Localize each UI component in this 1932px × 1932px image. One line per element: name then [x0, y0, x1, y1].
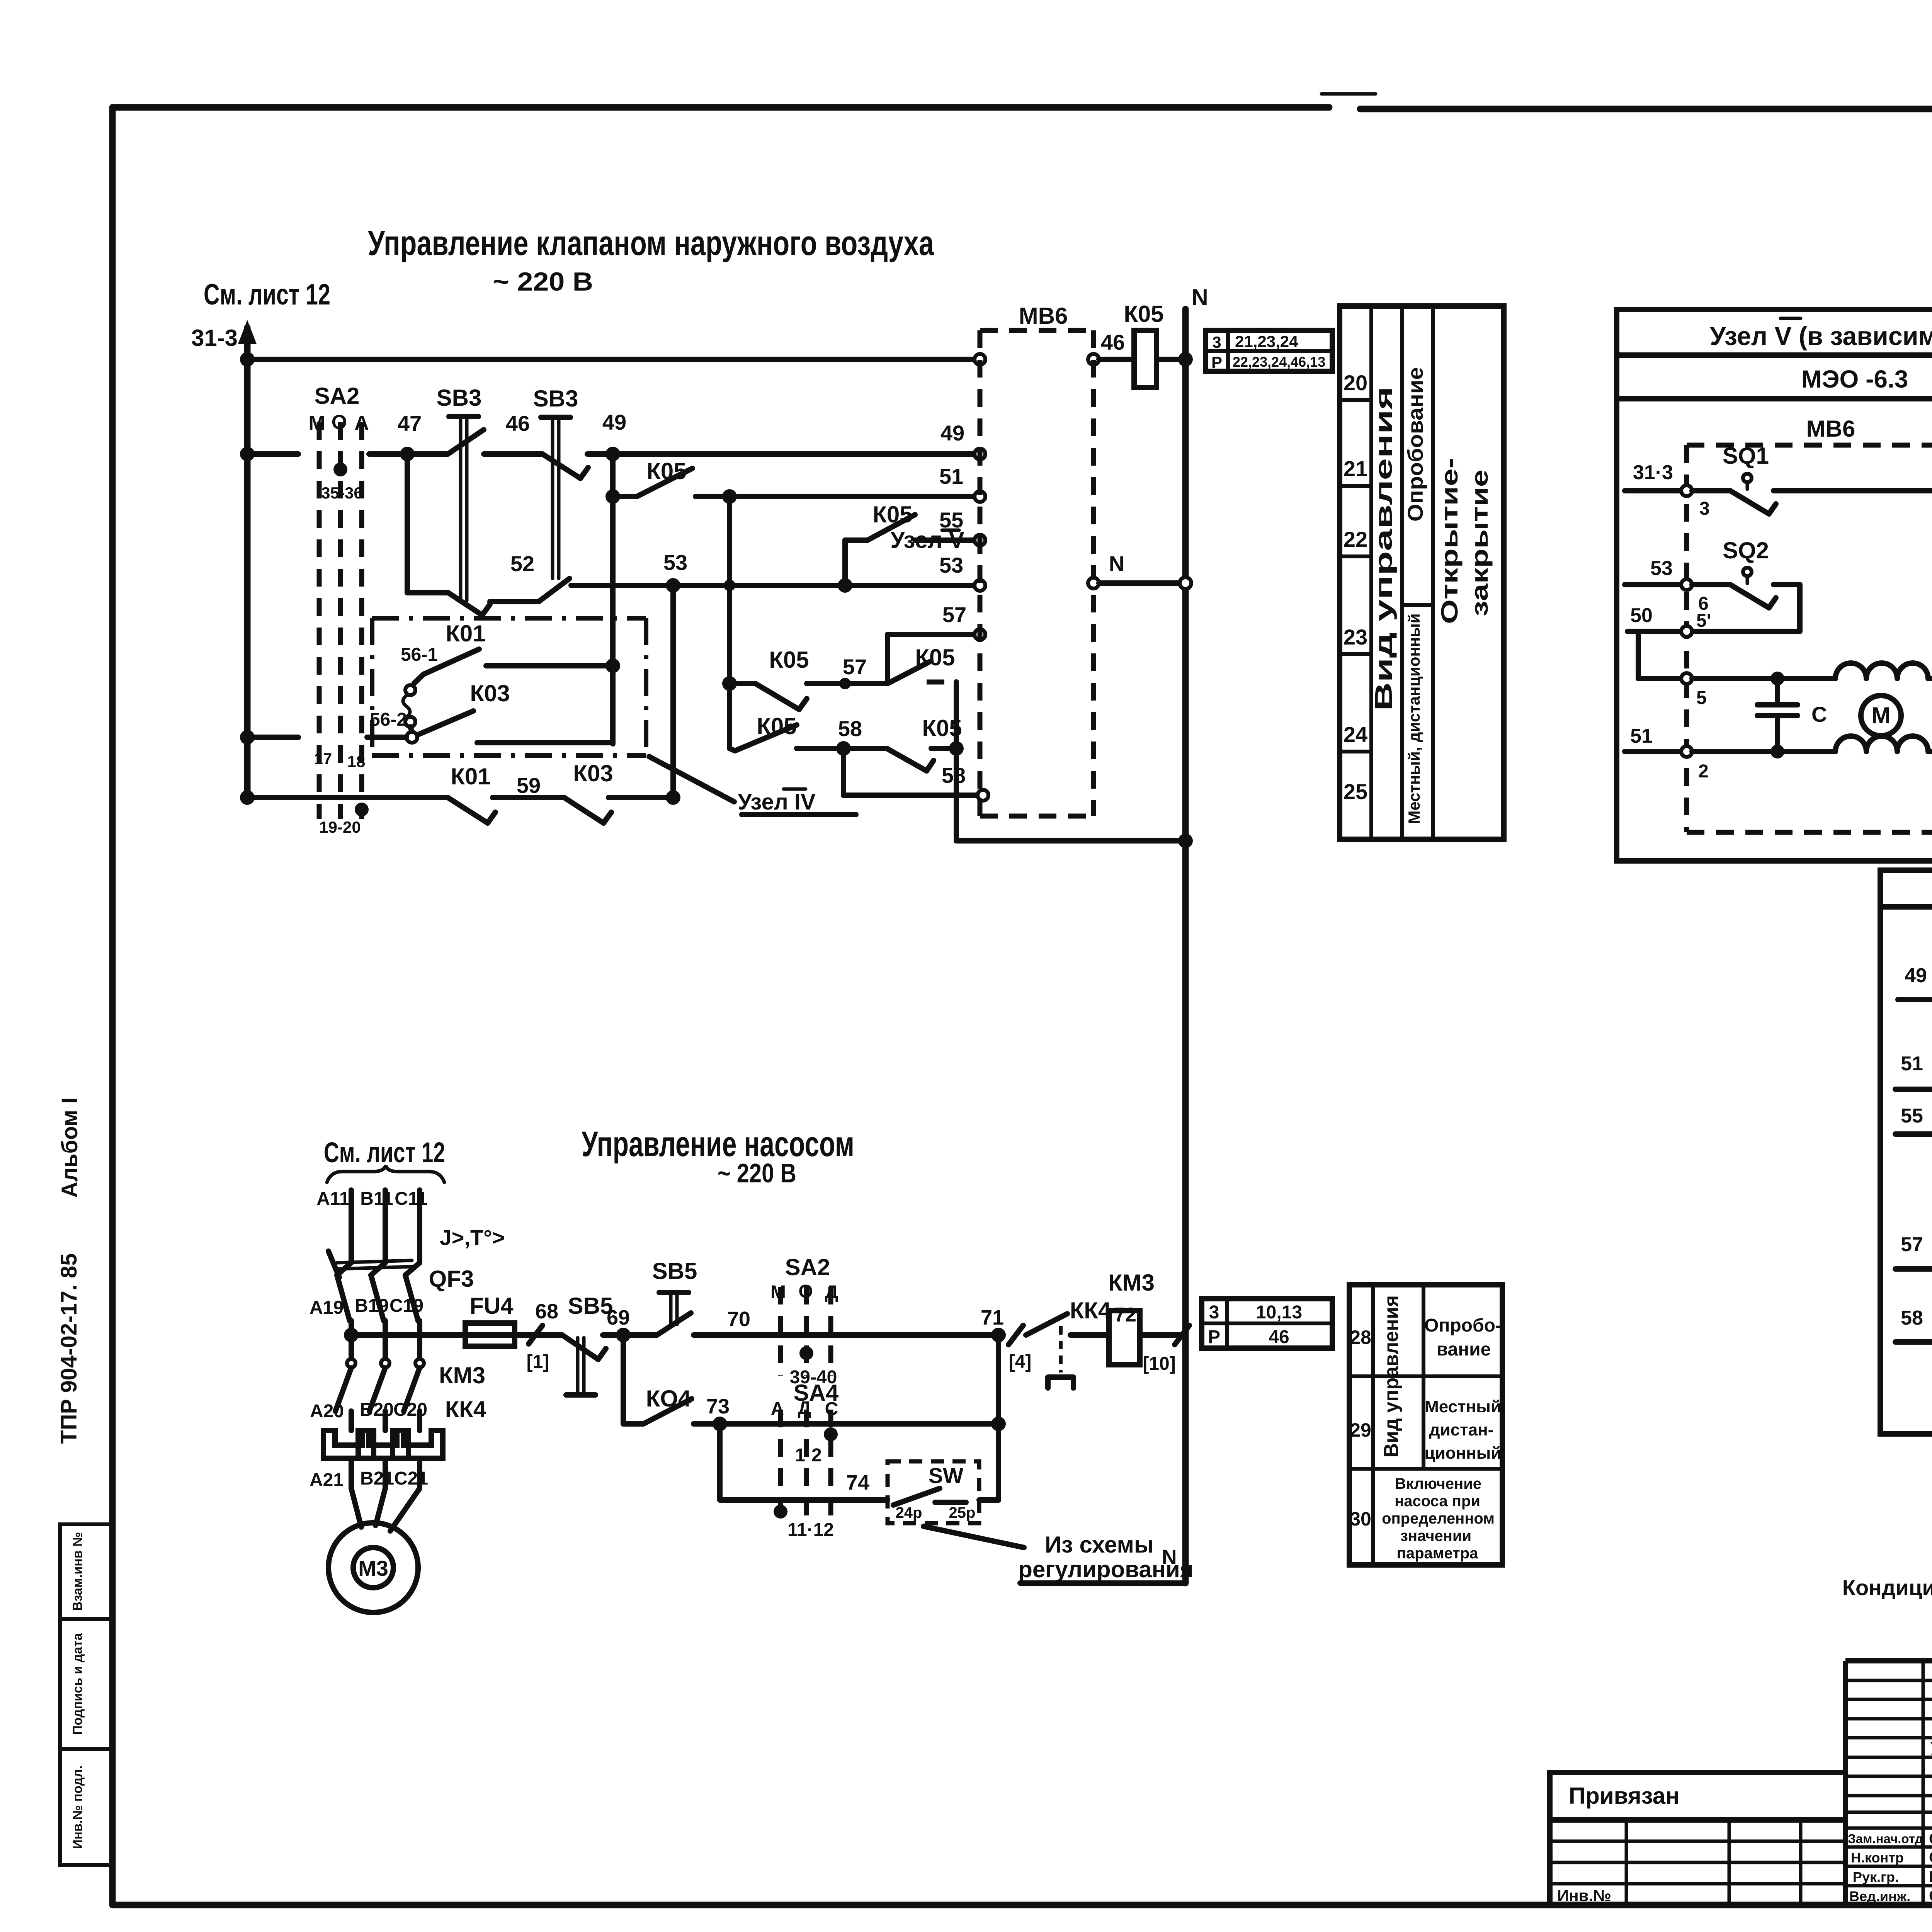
stop button SB5 — [562, 1293, 613, 1395]
svg-text:[1]: [1] — [527, 1352, 549, 1372]
svg-text:21,23,24: 21,23,24 — [1235, 332, 1298, 350]
junction on N bus — [1178, 833, 1193, 848]
wire 74 — [720, 1471, 888, 1500]
svg-text:2: 2 — [1698, 761, 1709, 782]
wire row A (top) to MV6 — [247, 357, 975, 362]
wire 46 to K05 coil — [1099, 357, 1134, 362]
svg-text:КМ3: КМ3 — [1108, 1270, 1155, 1296]
svg-text:Вед.инж.: Вед.инж. — [1849, 1888, 1910, 1904]
svg-text:22,23,24,46,13: 22,23,24,46,13 — [1233, 354, 1325, 370]
junction row E with K05 riser — [724, 580, 735, 591]
svg-text:КО4: КО4 — [646, 1386, 691, 1412]
svg-text:ТПР 904-02-17. 85: ТПР 904-02-17. 85 — [56, 1253, 82, 1444]
title block outer — [1845, 1661, 1932, 1905]
svg-text:47: 47 — [398, 411, 422, 435]
svg-text:А21: А21 — [310, 1470, 344, 1490]
fuse FU4 — [465, 1293, 515, 1346]
uzel IV label — [738, 789, 856, 815]
motor winding top (MEO-6.3) — [1835, 663, 1928, 679]
Uzel V label (inside) — [890, 527, 964, 553]
vertical junction 53 down to bottom row — [670, 585, 676, 798]
junction row E right — [838, 578, 852, 593]
svg-text:КК4: КК4 — [1070, 1298, 1111, 1323]
switch SA4 dashed — [771, 1380, 839, 1540]
svg-text:68: 68 — [535, 1300, 558, 1323]
inventory grid lower left — [1550, 1820, 1845, 1905]
capacitor C (MEO-6.3) — [1757, 679, 1827, 752]
svg-text:55: 55 — [1901, 1105, 1923, 1127]
riser to node 58 row — [954, 682, 959, 748]
svg-text:МВ6: МВ6 — [1019, 303, 1068, 329]
junction A-phase bottom — [355, 803, 369, 816]
svg-text:53: 53 — [663, 550, 687, 575]
labels 17 18 — [314, 750, 366, 770]
drop from node 58 to pin row — [841, 748, 846, 795]
privyazan box — [1550, 1772, 1845, 1820]
external jog 50 to pin 5 — [1638, 631, 1682, 679]
svg-text:Из схемы: Из схемы — [1045, 1532, 1154, 1558]
wire row B across SA2 to node 47 — [369, 451, 407, 457]
pin 3 circle — [1681, 485, 1710, 519]
svg-text:51: 51 — [1630, 725, 1653, 747]
contact K04 — [623, 1386, 692, 1424]
svg-text:определенном: определенном — [1382, 1510, 1495, 1527]
contact K03 at 56-2 — [370, 680, 510, 743]
svg-text:56-2: 56-2 — [370, 709, 407, 730]
wire K05 coil to N bus — [1156, 357, 1185, 362]
svg-text:46: 46 — [506, 411, 530, 435]
svg-text:3: 3 — [1212, 333, 1221, 351]
svg-text:С19: С19 — [389, 1296, 423, 1316]
svg-text:J>,Т°>: J>,Т°> — [440, 1225, 505, 1250]
svg-text:Вид управления: Вид управления — [1371, 386, 1397, 711]
svg-text:50: 50 — [1630, 604, 1653, 627]
svg-text:Гинодман: Гинодман — [1929, 1868, 1932, 1885]
row numbers 28-30 — [1350, 1327, 1371, 1530]
latch contact K01 with link 56-1 — [401, 621, 486, 674]
signature row ved inzh — [1849, 1888, 1932, 1905]
junction row F — [605, 658, 620, 673]
svg-text:В11: В11 — [360, 1189, 393, 1209]
wire 58 to pin — [844, 793, 978, 798]
svg-text:49: 49 — [1905, 964, 1927, 987]
svg-text:Узел V (в зависимости от типа: Узел V (в зависимости от типа исполнител… — [1710, 321, 1932, 351]
svg-text:См. лист 12: См. лист 12 — [324, 1136, 445, 1168]
left margin boxes — [60, 1524, 112, 1865]
contact K05 (58 row left) — [730, 713, 797, 751]
svg-text:А11: А11 — [316, 1189, 349, 1209]
svg-text:К01: К01 — [446, 621, 485, 646]
signature row zam nach otd — [1848, 1830, 1932, 1847]
node 50 stub — [1628, 604, 1682, 631]
uzel V variants outer box — [1617, 310, 1932, 861]
node 57 stub (DAU) — [1895, 1233, 1932, 1269]
svg-text:А20: А20 — [310, 1401, 344, 1422]
uzel IV dash-dot boundary — [372, 618, 646, 755]
svg-text:10,13: 10,13 — [1256, 1302, 1302, 1323]
wire pin5 to winding — [1692, 676, 1835, 681]
drop 73 to 74 line — [717, 1424, 723, 1500]
svg-text:30: 30 — [1350, 1508, 1371, 1530]
wire winding bottom to riser — [1928, 749, 1932, 754]
pin circle MV6 right, node 46 — [1088, 354, 1099, 365]
contact K05 (row D, 55) — [845, 502, 915, 540]
motor winding bottom — [1835, 736, 1928, 752]
svg-text:SA2: SA2 — [315, 383, 360, 409]
row numbers 20-25 — [1344, 371, 1367, 804]
svg-text:~ 220 В: ~ 220 В — [493, 267, 593, 296]
wire row G from bus — [247, 735, 298, 740]
wire to node 49 — [587, 451, 613, 457]
labels A19 B19 C19 — [310, 1296, 423, 1318]
node 69 — [607, 1306, 631, 1342]
svg-text:53: 53 — [1650, 557, 1673, 580]
pin circle MV6 left, row A — [975, 354, 985, 365]
svg-text:К05: К05 — [646, 458, 686, 484]
N return wire (pump) — [1020, 1546, 1185, 1583]
motor M3 — [328, 1523, 418, 1612]
svg-text:закрытие: закрытие — [1467, 469, 1493, 616]
wire to node 58 — [797, 746, 844, 751]
svg-text:59: 59 — [517, 773, 541, 798]
title block signature grid — [1845, 1661, 1932, 1905]
motor M circle (MEO-6.3) — [1861, 696, 1901, 736]
svg-text:Местный, дистанционный: Местный, дистанционный — [1405, 614, 1423, 824]
circuit breaker QF3 — [328, 1251, 474, 1321]
cell label vkluchenie nasosa — [1382, 1475, 1495, 1562]
svg-text:[10]: [10] — [1143, 1354, 1175, 1374]
svg-text:18: 18 — [347, 752, 366, 770]
svg-text:35-36: 35-36 — [321, 484, 362, 502]
svg-text:71: 71 — [981, 1306, 1004, 1329]
leader to regulation note — [923, 1526, 1024, 1548]
pin circle 57 — [975, 629, 985, 640]
note iz skhemy regulirovaniya — [1018, 1532, 1194, 1582]
svg-text:С21: С21 — [394, 1468, 428, 1489]
svg-text:24р: 24р — [896, 1504, 922, 1521]
svg-text:М: М — [1871, 702, 1891, 728]
junction riser — [949, 741, 964, 756]
svg-text:К05: К05 — [922, 715, 962, 741]
svg-text:А19: А19 — [310, 1298, 344, 1318]
pin circle 49 — [975, 449, 985, 459]
svg-text:57: 57 — [843, 655, 867, 679]
signature row ruk gr — [1853, 1868, 1932, 1885]
tick 71 and [4] — [1009, 1325, 1031, 1372]
svg-text:N: N — [1191, 284, 1208, 310]
svg-text:Привязан: Привязан — [1569, 1783, 1679, 1809]
open circle on bus at N — [1180, 577, 1191, 589]
svg-text:46: 46 — [1269, 1327, 1289, 1347]
svg-text:КК4: КК4 — [445, 1396, 486, 1422]
wire 57 row — [807, 681, 888, 686]
svg-text:58: 58 — [838, 716, 862, 741]
wire row C to pin 51 — [696, 494, 975, 499]
mechanical link circles 56 — [403, 674, 423, 732]
svg-text:FU4: FU4 — [469, 1293, 514, 1319]
svg-text:Включение: Включение — [1395, 1475, 1481, 1492]
svg-text:Вид управления: Вид управления — [1380, 1295, 1403, 1458]
svg-text:К05: К05 — [872, 502, 912, 527]
node 58 stub (DAU) — [1895, 1307, 1932, 1342]
junction K05 row — [722, 676, 737, 691]
svg-text:SB3: SB3 — [437, 385, 482, 411]
svg-text:А: А — [771, 1399, 784, 1419]
svg-text:Узел IV: Узел IV — [738, 789, 816, 815]
svg-text:Р: Р — [1211, 353, 1222, 371]
svg-text:25р: 25р — [949, 1504, 976, 1521]
function table rows 28-30 — [1349, 1285, 1502, 1565]
svg-text:31-3: 31-3 — [191, 325, 238, 351]
MEO-40 DAU outer box — [1880, 907, 1932, 1434]
wire fuse to SB5 — [515, 1332, 562, 1338]
node 53 stub (MEO-6.3) — [1625, 557, 1682, 585]
svg-text:С: С — [825, 1399, 838, 1419]
svg-text:53: 53 — [939, 553, 963, 577]
svg-text:~ 220 В: ~ 220 В — [718, 1158, 796, 1188]
SQ2 output jog to pin 5' — [1692, 585, 1800, 631]
svg-text:А: А — [354, 412, 369, 434]
N bus vertical — [1182, 309, 1189, 1583]
pin 6 circle — [1681, 579, 1709, 614]
svg-text:56-1: 56-1 — [401, 645, 438, 665]
push button SB3 (first) — [437, 385, 484, 601]
labels A20 B20 C20 — [310, 1400, 427, 1422]
wire pin3 to node 2' — [1774, 488, 1932, 493]
svg-text:К05: К05 — [1124, 301, 1163, 327]
svg-text:Инв.№: Инв.№ — [1557, 1886, 1611, 1905]
svg-text:49: 49 — [602, 410, 626, 434]
riser 71-73-74 — [996, 1335, 1001, 1500]
start button SB5 — [623, 1258, 697, 1335]
svg-text:19-20: 19-20 — [319, 818, 361, 836]
relay coil K05 — [1124, 301, 1163, 388]
svg-text:В19: В19 — [355, 1296, 389, 1316]
junction bottom right — [666, 790, 680, 805]
svg-text:SA2: SA2 — [785, 1254, 830, 1280]
contact K05 (57 row right) — [888, 645, 955, 684]
svg-text:29: 29 — [1350, 1419, 1371, 1441]
svg-text:Управление и силовое электр: Управление и силовое электрооборудование — [1930, 1739, 1932, 1759]
svg-text:Н.контр: Н.контр — [1851, 1850, 1904, 1866]
svg-text:насоса при: насоса при — [1395, 1493, 1480, 1510]
wire row E (53) to MV6 — [571, 583, 975, 588]
wire to node 73 — [694, 1421, 720, 1427]
svg-text:Огиечко: Огиечко — [1929, 1849, 1932, 1866]
svg-text:параметра: параметра — [1397, 1545, 1478, 1562]
return wire to N bus — [956, 838, 1185, 844]
SA2 contact dot 35-36 — [333, 463, 347, 476]
svg-text:С: С — [1811, 702, 1827, 726]
wire winding to right riser — [1928, 676, 1932, 681]
node 73 — [706, 1395, 730, 1431]
node 49 — [605, 447, 620, 461]
junction row C — [722, 489, 737, 504]
junction 57 row — [839, 678, 851, 689]
leader to uzel IV label — [649, 757, 734, 802]
brace under sm list 12 — [327, 1165, 444, 1182]
svg-text:Местный: Местный — [1425, 1397, 1501, 1416]
svg-text:57: 57 — [1901, 1233, 1923, 1256]
wire row G to 56-2 — [367, 735, 406, 740]
pin 5' circle — [1681, 611, 1711, 637]
pin circle 51 — [975, 491, 985, 502]
svg-text:SB5: SB5 — [568, 1293, 613, 1319]
svg-text:К03: К03 — [470, 680, 510, 706]
svg-text:значении: значении — [1400, 1527, 1471, 1544]
svg-text:М: М — [308, 412, 325, 434]
svg-text:74: 74 — [846, 1471, 869, 1494]
svg-text:22: 22 — [1344, 527, 1367, 551]
node 51 stub (DAU) — [1895, 1053, 1932, 1089]
pin circle 55 — [975, 535, 985, 546]
svg-text:ционный: ционный — [1425, 1444, 1502, 1463]
svg-text:Островский: Островский — [1929, 1830, 1932, 1847]
signature row n kontr — [1851, 1849, 1932, 1866]
node 58 — [836, 741, 851, 756]
svg-text:25: 25 — [1344, 779, 1367, 804]
svg-text:Д: Д — [825, 1282, 838, 1303]
svg-text:Открытие-: Открытие- — [1437, 458, 1463, 624]
pin 2 circle — [1681, 746, 1709, 782]
cell label oprobovanie (pump) — [1424, 1315, 1502, 1360]
svg-text:24: 24 — [1344, 722, 1367, 747]
node 47 — [400, 447, 415, 461]
svg-text:К03: К03 — [573, 760, 613, 786]
wire 59 — [493, 795, 564, 800]
svg-text:51: 51 — [939, 464, 963, 488]
contact 52 from node 47 latch — [407, 454, 490, 615]
svg-text:О: О — [332, 411, 347, 434]
vertical from node 49 down — [610, 454, 616, 744]
motor M3 leads — [351, 1488, 420, 1531]
contact K03 (bottom row) — [564, 760, 613, 823]
junction capacitor bottom — [1770, 745, 1784, 759]
svg-text:58: 58 — [1901, 1307, 1923, 1329]
svg-text:КМ3: КМ3 — [439, 1362, 485, 1388]
wire SW to riser — [979, 1497, 998, 1503]
pin 5 circle — [1681, 673, 1707, 708]
svg-text:Инв.№ подл.: Инв.№ подл. — [70, 1765, 85, 1849]
wire 46 segment — [484, 451, 543, 457]
svg-text:31·3: 31·3 — [1633, 461, 1673, 484]
svg-text:11·12: 11·12 — [787, 1520, 834, 1540]
cell label otkrytie-zakrytie — [1437, 458, 1493, 624]
contactor coil KM3 — [1108, 1270, 1176, 1374]
wire to riser junction — [931, 746, 956, 751]
svg-text:20: 20 — [1344, 371, 1367, 395]
svg-text:49: 49 — [940, 421, 964, 445]
junction 73 riser — [991, 1417, 1006, 1431]
svg-text:5: 5 — [1696, 688, 1707, 708]
junction on N bus — [1178, 352, 1193, 367]
svg-text:SQ1: SQ1 — [1723, 443, 1769, 469]
pin circle 58 — [978, 790, 988, 801]
svg-text:К01: К01 — [451, 764, 490, 789]
svg-text:28: 28 — [1350, 1327, 1371, 1348]
svg-text:69: 69 — [607, 1306, 630, 1329]
svg-text:N: N — [1162, 1546, 1177, 1569]
svg-text:О: О — [798, 1281, 813, 1302]
svg-text:См. лист 12: См. лист 12 — [204, 278, 330, 311]
node 71 — [981, 1306, 1006, 1342]
junction 53 — [666, 578, 680, 593]
svg-text:SB5: SB5 — [652, 1258, 697, 1284]
pressure switch SW dashed box — [888, 1461, 979, 1523]
svg-text:73: 73 — [706, 1395, 730, 1418]
uzel V box title — [1710, 318, 1932, 351]
wire SB5 to node 69 — [603, 1332, 623, 1338]
svg-text:5': 5' — [1696, 611, 1711, 631]
wire pin2 to winding bottom — [1692, 749, 1835, 754]
node 49 stub (DAU) — [1898, 964, 1932, 1000]
bottom row wire from bus — [247, 795, 448, 800]
svg-text:SW: SW — [929, 1463, 963, 1488]
svg-text:Д: Д — [798, 1398, 811, 1418]
svg-text:51: 51 — [1901, 1053, 1923, 1075]
ref table wires 3/P (pump) — [1202, 1299, 1332, 1348]
contact 52 blade to row E — [490, 578, 570, 602]
svg-text:Кондиционер: Кондиционер — [1842, 1575, 1932, 1600]
junction bus row G — [240, 730, 255, 745]
svg-text:17: 17 — [314, 750, 332, 768]
ref table wires 3/P (valve) — [1206, 330, 1332, 371]
thermal contact KK4 — [1026, 1298, 1136, 1388]
svg-text:вание: вание — [1437, 1339, 1491, 1360]
push button SB3 (second, break) — [533, 386, 588, 578]
svg-text:Рук.гр.: Рук.гр. — [1853, 1869, 1899, 1885]
limit switch SQ1 (MEO-6.3) — [1692, 443, 1776, 514]
svg-text:дистан-: дистан- — [1429, 1420, 1494, 1439]
svg-text:Альбом I: Альбом I — [57, 1097, 82, 1198]
svg-text:70: 70 — [727, 1308, 750, 1331]
svg-text:Управление клапаном наружного: Управление клапаном наружного воздуха — [368, 224, 934, 263]
riser down to N return — [954, 748, 959, 841]
wire 70 — [694, 1308, 998, 1335]
svg-text:Р: Р — [1208, 1327, 1220, 1347]
wire 47 to SB3 — [407, 451, 448, 457]
vertical from row C junction down — [727, 497, 732, 748]
dashed stub to riser — [927, 680, 951, 685]
svg-text:К05: К05 — [915, 645, 955, 670]
junction row C on 49-vertical — [605, 489, 620, 504]
node 31-3 stub — [1625, 461, 1682, 491]
pin circle 53 — [975, 580, 985, 591]
svg-text:К05: К05 — [757, 713, 796, 739]
switch SA2 dashed lines M O A — [319, 422, 362, 819]
cell label mestny distancionny (pump) — [1425, 1397, 1502, 1463]
svg-text:Опробование: Опробование — [1403, 367, 1427, 522]
svg-text:N: N — [1109, 551, 1124, 576]
svg-text:Савелова: Савелова — [1929, 1888, 1932, 1905]
phase feeders A11 B11 C11 — [316, 1189, 427, 1263]
svg-text:Зам.нач.отд: Зам.нач.отд — [1848, 1832, 1923, 1846]
node 55 stub (DAU) — [1895, 1105, 1932, 1134]
svg-text:С11: С11 — [395, 1189, 427, 1209]
svg-text:Подпись и дата: Подпись и дата — [70, 1633, 85, 1735]
wire 73 to 71 riser — [720, 1421, 998, 1427]
N wire from MV6 to bus — [1099, 580, 1179, 586]
svg-text:1·2: 1·2 — [795, 1445, 821, 1466]
pin circle N right edge — [1088, 578, 1099, 588]
node 51 stub — [1625, 725, 1682, 752]
contact K05 (57 row left) — [730, 647, 809, 709]
svg-text:[4]: [4] — [1009, 1352, 1032, 1372]
svg-text:QF3: QF3 — [429, 1266, 474, 1292]
SA2 position labels M O A — [308, 411, 369, 434]
junction capacitor top — [1770, 672, 1784, 685]
svg-text:3: 3 — [1209, 1302, 1219, 1323]
